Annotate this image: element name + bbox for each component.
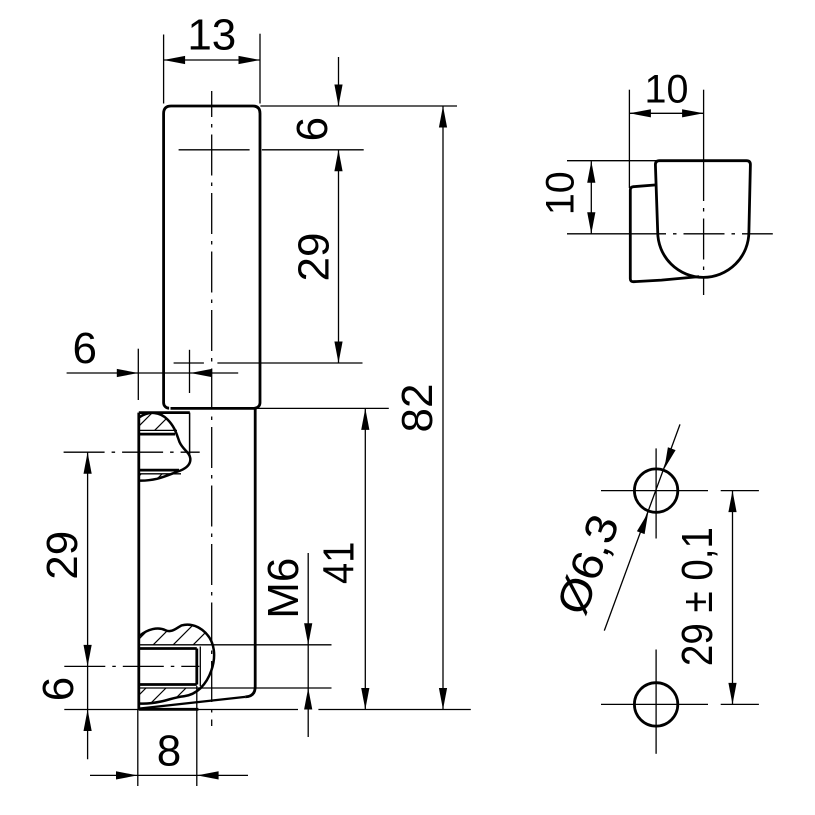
svg-text:10: 10 (645, 68, 689, 112)
svg-text:8: 8 (157, 727, 181, 776)
svg-text:10: 10 (539, 171, 583, 215)
svg-text:82: 82 (393, 384, 442, 433)
svg-text:6: 6 (34, 677, 83, 701)
svg-text:29: 29 (290, 233, 339, 282)
svg-text:29: 29 (38, 531, 87, 580)
svg-text:29 ± 0,1: 29 ± 0,1 (673, 527, 722, 666)
svg-text:13: 13 (187, 10, 236, 59)
svg-text:41: 41 (315, 542, 364, 584)
svg-text:6: 6 (288, 117, 337, 141)
svg-text:M6: M6 (259, 558, 308, 619)
svg-text:6: 6 (73, 324, 97, 373)
